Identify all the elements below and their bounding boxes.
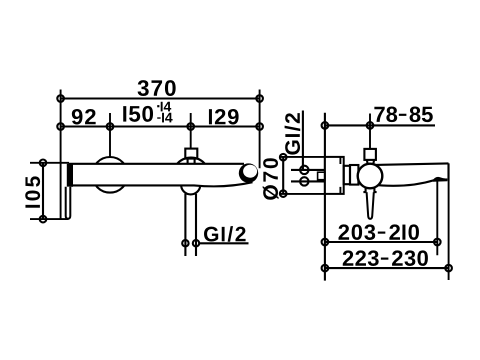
label 129 (209, 109, 239, 125)
side view: handle lever (367, 192, 374, 219)
dimension 203-210 (325, 241, 437, 243)
extension line left (x=60.6) (60, 90, 62, 219)
side view: flange step lines (339, 157, 341, 194)
label 223-230 (343, 250, 428, 266)
label diameter 70 (rotated) (263, 158, 279, 200)
front view: pipe nut dome below body (181, 186, 200, 194)
105 extension top (30, 162, 69, 164)
front view: body top edge (69, 163, 245, 165)
side view: G1/2 leader line (302, 111, 304, 170)
front view: spout tip crescent shading (243, 165, 257, 178)
side view: spout top edge (375, 163, 448, 165)
side view: handle collar (363, 187, 376, 192)
label G1/2 bottom (204, 226, 246, 242)
label 203-210 (338, 224, 418, 240)
label 78-85 (374, 107, 432, 123)
front view: inlet pipe below right flange (185, 194, 196, 256)
front view: wall flange right (top arc) (177, 158, 205, 164)
side view: spout end face (447, 163, 449, 180)
dimension 78-85 (325, 124, 435, 126)
front view: handle lever hanging down (66, 187, 71, 219)
dimension O70 (282, 157, 284, 193)
front view: body tube fill (69, 164, 251, 187)
side view: pipe bracket (318, 172, 325, 180)
side view: knob square (364, 149, 376, 160)
side view: knob stem (367, 160, 374, 164)
front view: body bottom edge (73, 182, 253, 186)
side view: cartridge housing (350, 165, 358, 185)
front view: wall flange left (92, 157, 128, 193)
dimension 223-230 (325, 267, 449, 269)
side view: valve body circle (358, 164, 383, 189)
extension line spout tip (x=259.6) (259, 90, 261, 169)
label 105 (rotated) (25, 176, 40, 207)
dimension 105 vertical (42, 163, 44, 219)
dimension line 92/150/129 (61, 125, 260, 127)
side view: spout bottom edge (378, 180, 434, 186)
extension line spout end (x=448.4) (448, 163, 450, 280)
extension line knob (x=369.9) (369, 114, 371, 149)
label 370 (138, 80, 176, 96)
front view: square inlet fitting on right flange (185, 149, 197, 159)
label 92 (72, 109, 96, 125)
side view: wall line (324, 113, 326, 281)
label tolerance +14 (157, 102, 171, 112)
front view: handle hub (left end cap) (67, 164, 73, 187)
side view: pipe cross circles (300, 166, 308, 174)
side view: body block (344, 166, 350, 184)
front view: pipe end marker circles (182, 240, 188, 246)
side view: escutcheon flange (325, 157, 344, 194)
front view: G1/2 label underline (200, 242, 249, 244)
front view: fitting stem lines (188, 159, 195, 164)
side view: aerator tip (432, 177, 447, 182)
O70 extension lines (279, 157, 325, 194)
label G1/2 side (rotated) (285, 113, 301, 155)
extension line aerator (x=436.8) (436, 181, 438, 255)
extension line flange left (x=110) (109, 113, 111, 157)
105 extension bottom (30, 218, 69, 220)
extension line fitting (x=190.7) (190, 113, 192, 149)
dimension line 370 (61, 97, 260, 99)
side view: inlet pipes (291, 170, 325, 182)
label 150 (123, 106, 153, 122)
label tolerance -14 (157, 113, 172, 123)
front view: spout tip circle (239, 163, 258, 182)
